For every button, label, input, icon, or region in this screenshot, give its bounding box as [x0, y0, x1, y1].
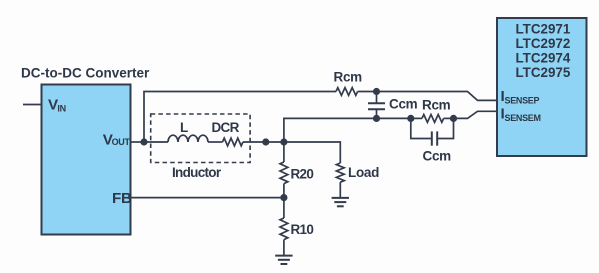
- converter block U1 (DC-to-DC Converter): [42, 85, 131, 235]
- ground (R10): [275, 255, 292, 257]
- svg-text:LTC2975: LTC2975: [516, 65, 571, 80]
- wire node F to Rcm2: [411, 117, 422, 119]
- svg-text:LTC2972: LTC2972: [516, 36, 571, 51]
- node G (right of parallel RC): [450, 115, 457, 122]
- capacitor Ccm (parallel) loop left side: [411, 118, 431, 138]
- svg-text:FB: FB: [112, 190, 132, 207]
- wire node D to node E: [266, 141, 284, 143]
- svg-text:L: L: [180, 120, 188, 135]
- svg-text:LTC2974: LTC2974: [516, 51, 571, 66]
- resistor Rcm (parallel with Ccm): [422, 115, 444, 123]
- node D: [262, 138, 269, 145]
- inductor L winding: [168, 135, 208, 142]
- wire Rcm to bend, into ISENSEP: [358, 92, 497, 101]
- wire node E to Load corner: [284, 142, 340, 163]
- ground (Load): [332, 197, 349, 199]
- wire node H down to R10: [283, 198, 285, 218]
- inductor model dashed box: [151, 114, 250, 163]
- wire R20 to node H: [283, 184, 285, 198]
- svg-text:DC-to-DC Converter: DC-to-DC Converter: [21, 66, 150, 81]
- wire node G bend into ISENSEM: [454, 111, 498, 118]
- wire VOUT pin to node A: [131, 141, 145, 143]
- wire node A up and across to Rcm (sense+ line): [144, 92, 336, 143]
- node F (left of parallel RC): [407, 115, 414, 122]
- resistor R20: [280, 162, 288, 184]
- svg-text:LTC2971: LTC2971: [516, 22, 571, 37]
- svg-text:Rcm: Rcm: [422, 98, 451, 113]
- svg-text:DCR: DCR: [212, 120, 240, 135]
- svg-text:SENSEM: SENSEM: [505, 113, 541, 123]
- resistor R10: [280, 218, 288, 240]
- wire node E down to R20: [283, 142, 285, 162]
- resistor Rcm (top sense line): [336, 88, 358, 96]
- svg-text:Rcm: Rcm: [334, 70, 363, 85]
- capacitor Ccm (shunt): [376, 92, 378, 104]
- node B (top Ccm junction): [373, 88, 380, 95]
- node E: [280, 138, 287, 145]
- wire R10 to ground: [283, 240, 285, 256]
- node A (VOUT junction): [140, 138, 147, 145]
- svg-text:OUT: OUT: [112, 137, 131, 147]
- capacitor Ccm (parallel) plates: [431, 131, 433, 145]
- resistor DCR (inductor series resistance): [223, 138, 243, 146]
- svg-text:R10: R10: [291, 222, 314, 237]
- svg-text:R20: R20: [291, 167, 314, 182]
- wire Rcm2 to node G: [444, 117, 454, 119]
- svg-text:Load: Load: [348, 165, 379, 180]
- resistor Load: [336, 163, 344, 182]
- svg-text:Ccm: Ccm: [423, 149, 452, 164]
- wire VIN input stub: [23, 104, 42, 106]
- wire node A to inductor L: [144, 141, 168, 143]
- svg-text:IN: IN: [57, 104, 65, 114]
- svg-text:Inductor: Inductor: [172, 165, 222, 180]
- wire FB pin to node H: [131, 197, 284, 199]
- wire L to DCR: [208, 141, 223, 143]
- wire DCR to node D: [243, 141, 266, 143]
- capacitor Ccm (parallel) loop right side: [438, 118, 454, 138]
- svg-text:SENSEP: SENSEP: [505, 96, 540, 106]
- wire node E up and across (sense- line): [284, 118, 411, 142]
- svg-text:Ccm: Ccm: [389, 97, 418, 112]
- node C (bottom Ccm junction): [373, 115, 380, 122]
- wire Load to ground: [339, 182, 341, 198]
- monitor block U2 (LTC297x): [497, 18, 587, 156]
- node H (FB junction): [280, 194, 287, 201]
